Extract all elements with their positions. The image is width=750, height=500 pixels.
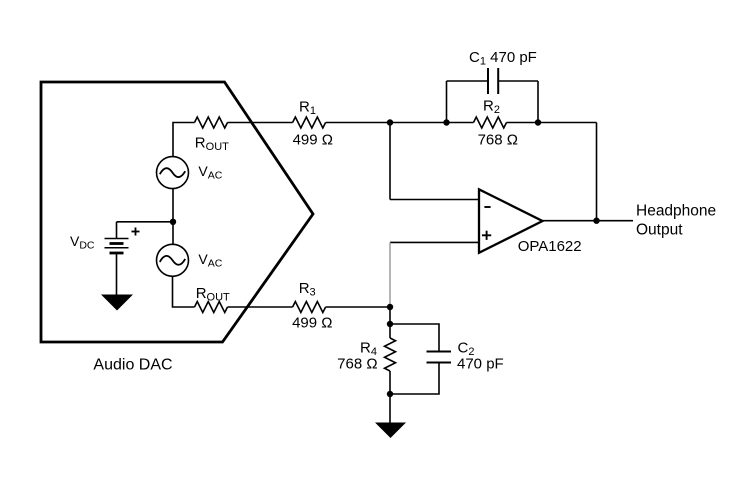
wire: non-inverting input vertical (gray): [389, 242, 391, 307]
svg-text:768 Ω: 768 Ω: [478, 132, 518, 149]
wire: op-amp output: [543, 220, 634, 222]
wire: R2 to right corner of feedback: [507, 122, 597, 124]
resistor R2 zigzag: [474, 117, 507, 128]
svg-text:768 Ω: 768 Ω: [337, 356, 377, 373]
svg-text:C1 470 pF: C1 470 pF: [469, 49, 537, 68]
wire: ground stem: [389, 394, 391, 423]
wire: top rail left lead + drop to top VAC: [173, 123, 195, 157]
wire: lead into R4: [389, 324, 391, 338]
wire: C1 left branch vertical: [446, 81, 448, 123]
wire: node to R4 top node: [389, 307, 391, 324]
op-amp plus pin mark: [482, 231, 491, 240]
capacitor C1 plates: [488, 68, 498, 94]
svg-text:OPA1622: OPA1622: [518, 238, 582, 255]
wire: inverting node to C1 left corner: [390, 122, 447, 124]
resistor R1 zigzag: [293, 117, 326, 128]
wire: C1 right branch vertical: [537, 81, 539, 123]
capacitor C2 plates: [427, 352, 452, 363]
Audio DAC block outline: [41, 82, 313, 342]
wire: R4 bottom lead: [389, 371, 391, 394]
svg-text:499 Ω: 499 Ω: [293, 132, 333, 149]
junction node: C1 left: [443, 119, 449, 125]
resistor ROUT (top) zigzag: [195, 117, 228, 128]
junction node: R3 / + input: [387, 304, 393, 310]
wire: battery bottom stem: [116, 253, 118, 295]
wire: C2 top branch: [390, 324, 439, 352]
wire: bottom rail between ROUT and R3: [228, 306, 293, 308]
AC source VAC (bottom): [157, 244, 189, 276]
battery plus sign: [132, 228, 140, 236]
battery VDC plates: [105, 239, 129, 254]
svg-text:499 Ω: 499 Ω: [292, 314, 332, 331]
junction dot VAC midpoint: [170, 219, 176, 225]
svg-text:Audio DAC: Audio DAC: [93, 357, 172, 374]
junction node: R4-C2 bottom: [387, 391, 393, 397]
svg-text:Output: Output: [636, 221, 683, 238]
wire: non-inverting input horizontal into op-amp: [390, 241, 479, 243]
ground (battery): [101, 295, 133, 311]
op-amp U1 OPA1622 triangle: [479, 189, 543, 253]
wire: feedback right vertical down to output node: [596, 123, 598, 221]
wire: top rail between ROUT and R1: [228, 122, 293, 124]
wire: C1 right horizontal lead: [498, 80, 538, 82]
wire: battery to VAC junction: [117, 221, 174, 223]
ground (output filter): [375, 423, 406, 439]
AC source VAC (top): [157, 157, 189, 189]
wire: C2 bottom branch: [390, 363, 439, 395]
wire: between VAC sources: [172, 189, 174, 245]
svg-text:Headphone: Headphone: [636, 202, 716, 219]
wire: lead into R2: [447, 122, 474, 124]
svg-text:470 pF: 470 pF: [457, 356, 504, 373]
wire: R3 to non-inverting node: [326, 306, 390, 308]
wire: top rail R1 to inverting node: [326, 122, 390, 124]
wire: C1 left horizontal lead: [447, 80, 489, 82]
junction node: C1 right: [535, 119, 541, 125]
resistor ROUT (bottom) zigzag: [195, 302, 228, 313]
wire: battery top stem: [116, 222, 118, 239]
resistor R3 zigzag: [293, 302, 326, 313]
wire: bottom VAC stem to bottom rail: [173, 276, 195, 307]
resistor R4 zigzag: [385, 338, 396, 371]
wire: inverting input horizontal into op-amp: [390, 199, 479, 201]
wire: inverting input vertical from node: [389, 123, 391, 200]
junction node: inverting feedback: [387, 119, 393, 125]
op-amp minus pin mark: [484, 206, 490, 208]
junction node: output: [593, 218, 599, 224]
junction node: R4-C2 top: [387, 321, 393, 327]
